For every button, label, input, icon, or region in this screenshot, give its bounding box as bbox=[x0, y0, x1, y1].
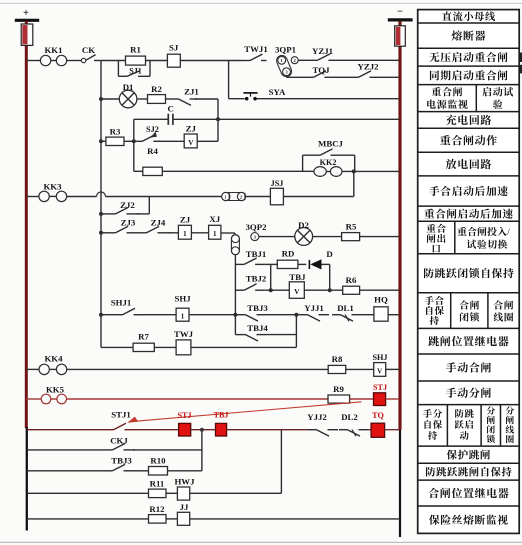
capacitor C bbox=[167, 114, 169, 125]
resistor R1 bbox=[126, 56, 146, 65]
wire / node at long vertical bbox=[101, 60, 126, 62]
wire branch down to SYA bbox=[228, 61, 230, 99]
switch KK4 bbox=[39, 364, 49, 374]
switch ZJ4 bbox=[138, 232, 147, 234]
switch YJJ2 bbox=[308, 429, 317, 431]
wire trip row (dark red) bbox=[27, 429, 105, 431]
svg-text:R9: R9 bbox=[333, 384, 344, 394]
wire top rail from + bus bbox=[26, 60, 41, 62]
pushbutton SYA bbox=[245, 97, 249, 101]
svg-text:JJ: JJ bbox=[180, 502, 189, 512]
svg-text:DL2: DL2 bbox=[341, 412, 358, 422]
positive bus cap bar bbox=[15, 19, 39, 22]
wire bbox=[101, 314, 114, 316]
svg-text:KK4: KK4 bbox=[44, 354, 63, 364]
contact MBCJ (parallel) bbox=[302, 155, 304, 171]
switch SHJ1 bbox=[114, 314, 123, 316]
switch TBJ2 bbox=[236, 289, 245, 291]
svg-text:RD: RD bbox=[282, 249, 295, 259]
svg-text:TBJ: TBJ bbox=[289, 272, 306, 282]
svg-text:R1: R1 bbox=[130, 45, 141, 55]
svg-text:STJ: STJ bbox=[373, 383, 387, 392]
table row: 重合闸启动后加速 bbox=[424, 209, 512, 219]
wire from + bus bbox=[26, 368, 39, 370]
switch YZJ2 bbox=[350, 76, 359, 78]
svg-text:ZJ2: ZJ2 bbox=[120, 200, 135, 210]
wire bbox=[337, 76, 350, 78]
fuse FU- (right) bbox=[395, 26, 406, 46]
switch TBJ3 bbox=[237, 314, 246, 316]
svg-text:JSJ: JSJ bbox=[271, 179, 284, 188]
svg-text:1: 1 bbox=[224, 194, 226, 199]
switch KK3 bbox=[39, 191, 49, 201]
svg-text:XJ: XJ bbox=[209, 214, 220, 224]
wire to TWJ1 bbox=[180, 60, 241, 62]
table row: 手分自保持 / 防跳跃启动 / 分闸闭锁 / 分闸线圈 bbox=[446, 405, 448, 447]
wire bbox=[66, 60, 81, 62]
wire vertical to JSJ row bbox=[353, 171, 355, 196]
svg-text:D: D bbox=[326, 249, 332, 259]
wire bbox=[154, 346, 176, 348]
svg-text:HWJ: HWJ bbox=[174, 477, 195, 487]
relay ZJ (voltage monitoring) bbox=[184, 134, 197, 148]
wire bbox=[101, 232, 107, 234]
switch SJ2 (time delay contact) bbox=[134, 140, 143, 142]
table row: 防跳跃闭锁自保持 bbox=[424, 268, 514, 278]
svg-text:TQJ: TQJ bbox=[312, 65, 330, 75]
switch CK bbox=[81, 58, 85, 62]
svg-text:ZJ: ZJ bbox=[180, 215, 191, 225]
rotary switch 3QP1 (positions 1-2-3) bbox=[275, 54, 293, 78]
wire R11/HWJ row bbox=[27, 492, 149, 494]
coil HQ (closing coil) bbox=[374, 307, 388, 321]
right DC bus (negative, red) bbox=[398, 21, 401, 430]
switch TBJ1 bbox=[236, 263, 245, 265]
wire vertical 3QP2 to TBJ rows bbox=[234, 255, 236, 335]
wire long to KK2 bbox=[162, 170, 314, 172]
wire bbox=[166, 492, 177, 494]
svg-text:1: 1 bbox=[183, 230, 187, 238]
page top border bbox=[0, 2, 522, 4]
relay HWJ (closed position) bbox=[177, 487, 189, 500]
wire 3QP1 pin2 to YZJ1 bbox=[298, 59, 309, 61]
table row: 防跳跃跳闸自保持 bbox=[426, 467, 512, 477]
svg-text:TBJ3: TBJ3 bbox=[111, 455, 132, 465]
negative bus cap bar bbox=[388, 18, 413, 21]
table row: 同期启动重合闸 bbox=[430, 70, 508, 80]
svg-text:DL1: DL1 bbox=[337, 303, 354, 313]
wire vertical HWJ row to trip row bbox=[280, 430, 282, 494]
switch TWJ1 bbox=[242, 60, 251, 62]
wire to 3QP2 bbox=[221, 232, 235, 234]
svg-text:3QP1: 3QP1 bbox=[275, 44, 296, 54]
svg-text:YZJ2: YZJ2 bbox=[357, 62, 379, 72]
wire up to KK3 row bbox=[137, 213, 149, 215]
wire from + bus (red) bbox=[26, 398, 41, 400]
svg-text:ZJ4: ZJ4 bbox=[151, 217, 166, 227]
wire vertical to R7 row bbox=[295, 315, 297, 348]
resistor R2 bbox=[148, 95, 166, 104]
svg-text:MBCJ: MBCJ bbox=[318, 139, 344, 149]
switch ZJ1 bbox=[170, 98, 179, 100]
resistor R7 bbox=[133, 343, 154, 351]
switch TQJ bbox=[305, 76, 314, 78]
wire bbox=[168, 470, 202, 472]
switch YZJ1 bbox=[309, 59, 318, 61]
switch KK5 (red) bbox=[41, 394, 51, 404]
svg-text:R8: R8 bbox=[332, 354, 343, 364]
svg-text:/: / bbox=[507, 227, 510, 238]
wire bbox=[235, 334, 237, 336]
svg-text:TQ: TQ bbox=[372, 411, 384, 420]
wire bbox=[191, 346, 297, 348]
wire to right bus bbox=[190, 518, 400, 520]
relay STJ coil (red box) bbox=[374, 393, 386, 406]
wire bbox=[134, 170, 143, 172]
switch ZJ3 bbox=[107, 232, 116, 234]
wire bbox=[189, 314, 237, 316]
svg-text:1: 1 bbox=[181, 312, 185, 320]
svg-text:SJ2: SJ2 bbox=[146, 125, 159, 134]
resistor RD bbox=[277, 260, 298, 268]
relay TBJ contact (red box) bbox=[216, 423, 227, 436]
relay ZJ contact box (1) bbox=[178, 225, 191, 239]
switch DL2 bbox=[339, 429, 348, 431]
svg-text:C: C bbox=[168, 104, 174, 114]
svg-text:R2: R2 bbox=[151, 84, 162, 94]
switch STJ1 bbox=[105, 429, 114, 431]
wire bbox=[362, 314, 374, 316]
wire bbox=[259, 236, 295, 238]
svg-text:2: 2 bbox=[240, 194, 242, 199]
wire bbox=[298, 263, 306, 265]
wire R12/JJ row bbox=[27, 518, 149, 520]
svg-text:TBJ2: TBJ2 bbox=[246, 273, 267, 283]
relay SJ (time relay coil) bbox=[167, 54, 180, 67]
wire long bbox=[67, 368, 329, 370]
wire bbox=[304, 289, 342, 291]
resistor R6 bbox=[343, 286, 360, 294]
svg-text:R11: R11 bbox=[150, 478, 165, 488]
fuse FU+ (left) bbox=[21, 24, 33, 45]
wire to - bus bbox=[257, 98, 399, 100]
wire / vertical to cap row bbox=[195, 98, 218, 100]
svg-text:ZJ: ZJ bbox=[186, 124, 197, 134]
switch KK1 (control switch contacts) bbox=[40, 55, 50, 65]
svg-text:YJJ2: YJJ2 bbox=[307, 412, 327, 422]
svg-text:SHJ: SHJ bbox=[175, 294, 192, 304]
svg-text:R5: R5 bbox=[346, 222, 357, 232]
contact SJ1 (parallel branch under R1) bbox=[117, 61, 119, 77]
wire bbox=[350, 398, 374, 400]
wire vertical feeder from CK bbox=[100, 61, 102, 348]
table row: 手动分闸 bbox=[446, 387, 491, 397]
wire bbox=[101, 213, 107, 215]
svg-text:KK2: KK2 bbox=[320, 158, 337, 167]
svg-text:STJ: STJ bbox=[177, 411, 191, 420]
wire from + bus bbox=[26, 196, 39, 198]
table row: 手合自保持 / 合闸闭锁 / 合闸线圈 bbox=[450, 293, 452, 329]
svg-text:KK1: KK1 bbox=[44, 45, 62, 55]
svg-text:KK5: KK5 bbox=[46, 384, 65, 394]
svg-text:R12: R12 bbox=[149, 504, 165, 514]
wire bbox=[101, 346, 133, 348]
wire bbox=[346, 368, 374, 370]
svg-text:R7: R7 bbox=[138, 332, 149, 342]
table row: 熔断器 bbox=[452, 30, 486, 40]
resistor R11 bbox=[149, 489, 167, 498]
svg-text:YJJ1: YJJ1 bbox=[304, 303, 324, 313]
svg-text:YZJ1: YZJ1 bbox=[312, 46, 333, 56]
svg-text:TBJ: TBJ bbox=[213, 411, 228, 420]
wire bbox=[101, 140, 106, 142]
svg-text:SHJ: SHJ bbox=[372, 353, 387, 362]
table row: 跳闸位置继电器 bbox=[428, 336, 508, 346]
relay JSJ (acceleration) bbox=[270, 188, 283, 205]
svg-text:SHJ1: SHJ1 bbox=[111, 298, 132, 308]
svg-text:R10: R10 bbox=[150, 456, 166, 466]
wire / vertical down to R6 row bbox=[322, 263, 330, 265]
table row: 重合闸电源监视 / 启动试验 bbox=[475, 85, 477, 112]
svg-text:R4: R4 bbox=[147, 146, 158, 156]
svg-text:TWJ: TWJ bbox=[174, 329, 194, 339]
function label table bbox=[418, 10, 520, 534]
svg-text:ZJ1: ZJ1 bbox=[184, 87, 199, 97]
connector plug 1-2 bbox=[222, 192, 230, 200]
wire bbox=[146, 60, 168, 62]
table row: 手动合闸 bbox=[446, 362, 491, 372]
clipped glyph fragments at right edge bbox=[520, 53, 522, 63]
table row: 重合闸出口 / 重合闸投入试验切换 bbox=[454, 221, 456, 253]
table row: 保护跳闸 bbox=[447, 450, 490, 460]
wire / junction bbox=[265, 263, 278, 265]
switch KK2 bbox=[314, 167, 326, 177]
wire from 3QP1 pin3 down bbox=[286, 75, 288, 77]
wire bbox=[191, 232, 208, 234]
svg-text:1: 1 bbox=[213, 230, 217, 238]
wire bbox=[368, 429, 371, 431]
table row: 手合启动后加速 bbox=[429, 186, 508, 196]
wire to - bus bbox=[388, 314, 399, 316]
wire with hop over vertical bbox=[66, 196, 96, 198]
svg-text:SJ1: SJ1 bbox=[129, 66, 141, 75]
svg-text:TBJ1: TBJ1 bbox=[246, 249, 267, 259]
svg-text:CKJ: CKJ bbox=[110, 436, 128, 446]
resistor R4 bbox=[143, 167, 163, 175]
svg-text:STJ1: STJ1 bbox=[111, 410, 131, 420]
wire to - bus bbox=[385, 429, 400, 431]
wire charging circuit to - bus bbox=[218, 118, 399, 120]
resistor R12 bbox=[149, 515, 167, 524]
resistor R8 bbox=[328, 365, 346, 373]
diode D bbox=[308, 260, 310, 269]
switch CKJ row bbox=[27, 449, 104, 451]
switch YJJ1 bbox=[299, 314, 308, 316]
svg-text:3QP2: 3QP2 bbox=[245, 222, 267, 232]
svg-text:V: V bbox=[188, 139, 194, 147]
wire bbox=[265, 289, 290, 291]
wire bbox=[173, 118, 218, 120]
switch ZJ2 bbox=[107, 213, 116, 215]
svg-text:TBJ3: TBJ3 bbox=[247, 303, 268, 313]
wire bbox=[101, 98, 119, 100]
wire bbox=[141, 314, 176, 316]
wire bbox=[313, 236, 342, 238]
left lower bus (black) bbox=[26, 427, 28, 531]
svg-text:SYA: SYA bbox=[269, 87, 286, 97]
table row: 无压启动重合闸 bbox=[429, 52, 507, 62]
relay TWJ (trip position) bbox=[176, 340, 191, 355]
wire bbox=[266, 314, 299, 316]
wire / junction bbox=[191, 429, 216, 431]
switch DL1 bbox=[332, 314, 341, 316]
relay STJ contact (red box) bbox=[179, 423, 191, 436]
relay SHJ coil (V) bbox=[374, 363, 386, 377]
wire bbox=[134, 118, 168, 120]
resistor R9 bbox=[328, 395, 350, 403]
table row: 保险丝熔断监视 bbox=[429, 515, 508, 525]
svg-text:R3: R3 bbox=[110, 126, 121, 136]
lamp D1 bbox=[119, 90, 137, 108]
resistor R5 bbox=[342, 233, 360, 241]
svg-text:D1: D1 bbox=[123, 82, 134, 92]
table row: 放电回路 bbox=[446, 159, 491, 169]
wire vertical C-row to R4-row bbox=[133, 119, 135, 171]
wire to vertical bbox=[190, 492, 282, 494]
svg-text:V: V bbox=[294, 287, 300, 296]
wire to - bus bbox=[386, 368, 400, 370]
wire vertical from STJ1 row junction bbox=[201, 430, 203, 471]
relay SHJ contact box (1) bbox=[176, 308, 189, 321]
relay JJ (fuse monitoring) bbox=[177, 512, 189, 525]
table row: 重合闸动作 bbox=[440, 135, 497, 145]
wire bbox=[283, 196, 353, 198]
wire to - bus bbox=[377, 76, 399, 78]
svg-text:+: + bbox=[23, 8, 29, 19]
svg-text:HQ: HQ bbox=[374, 294, 388, 304]
wire bbox=[137, 98, 148, 100]
wire bbox=[166, 98, 171, 100]
table row: 合闸位置继电器 bbox=[429, 488, 509, 498]
page bottom border bbox=[0, 541, 522, 543]
wire bbox=[168, 232, 178, 234]
left DC bus (positive, red) bbox=[25, 21, 28, 428]
svg-text:CK: CK bbox=[82, 45, 95, 55]
wire to - bus bbox=[342, 170, 399, 172]
wire bbox=[197, 140, 218, 142]
svg-text:V: V bbox=[377, 368, 382, 376]
table row: 直流小母线 bbox=[442, 11, 495, 21]
table row: 充电回路 bbox=[446, 115, 491, 125]
wire to - bus bbox=[335, 59, 399, 61]
svg-text:−: − bbox=[397, 7, 403, 18]
svg-text:SJ: SJ bbox=[169, 43, 179, 53]
relay XJ contact box (1) bbox=[209, 225, 221, 239]
coil TQ (trip coil, red box) bbox=[371, 423, 385, 437]
wire bbox=[135, 429, 179, 431]
wire bbox=[227, 429, 308, 431]
svg-text:R6: R6 bbox=[346, 275, 357, 285]
svg-text:TWJ1: TWJ1 bbox=[244, 44, 267, 54]
wire bbox=[158, 140, 184, 142]
resistor R10 bbox=[133, 470, 149, 472]
lamp D2 bbox=[295, 228, 313, 246]
resistor R3 bbox=[106, 137, 124, 145]
switch TBJ4 bbox=[237, 334, 246, 336]
wire bbox=[166, 518, 177, 520]
switch TBJ3 (lower) bbox=[27, 470, 104, 472]
wire vertical TBJ1-TBJ2 bbox=[270, 264, 272, 290]
wire bbox=[246, 196, 271, 198]
rotary switch 3QP2 bbox=[231, 235, 239, 255]
svg-text:ZJ3: ZJ3 bbox=[121, 217, 136, 227]
wire to - bus bbox=[360, 236, 400, 238]
relay TBJ (anti-pumping, V) bbox=[289, 282, 304, 299]
svg-text:D2: D2 bbox=[298, 220, 309, 230]
wire to - bus bbox=[386, 398, 400, 400]
wire / junction bbox=[124, 140, 134, 142]
wire long (red) bbox=[67, 398, 329, 400]
svg-text:KK3: KK3 bbox=[43, 181, 62, 191]
annotation arrow (red) pointing at STJ1 bbox=[136, 402, 362, 421]
right lower bus (black) bbox=[399, 430, 401, 537]
wire to - bus bbox=[360, 289, 400, 291]
svg-text:TBJ4: TBJ4 bbox=[247, 323, 268, 333]
